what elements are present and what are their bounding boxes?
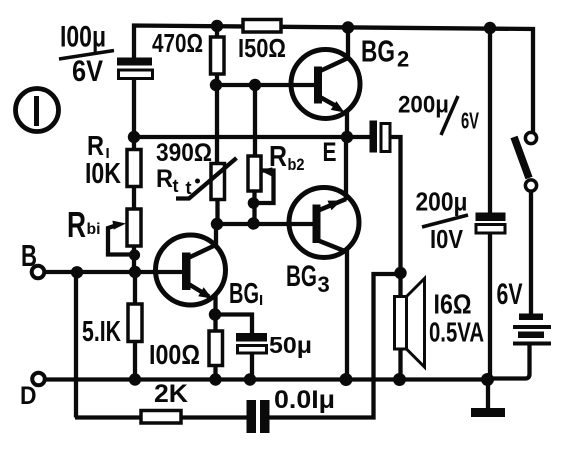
svg-text:I00μ: I00μ: [60, 21, 106, 54]
svg-text:390Ω: 390Ω: [156, 139, 212, 167]
svg-text:BG: BG: [286, 260, 317, 293]
svg-text:R: R: [67, 204, 86, 245]
svg-text:I0V: I0V: [430, 224, 464, 254]
svg-text:50μ: 50μ: [269, 332, 312, 358]
svg-text:b2: b2: [288, 155, 305, 174]
svg-text:470Ω: 470Ω: [152, 28, 203, 58]
svg-text:BG: BG: [361, 34, 395, 69]
svg-text:2K: 2K: [154, 380, 188, 408]
svg-text:6V: 6V: [497, 278, 523, 311]
svg-text:5.IK: 5.IK: [82, 316, 121, 348]
svg-text:R: R: [269, 141, 287, 173]
svg-text:3: 3: [318, 272, 330, 297]
svg-text:I6Ω: I6Ω: [434, 289, 472, 320]
svg-text:I00Ω: I00Ω: [149, 339, 200, 370]
svg-text:t: t: [173, 176, 179, 196]
svg-text:R: R: [87, 130, 104, 161]
svg-text:I: I: [259, 292, 263, 309]
svg-text:I0K: I0K: [85, 158, 121, 190]
svg-text:R: R: [156, 165, 173, 193]
svg-text:2: 2: [397, 47, 409, 72]
svg-text:t: t: [186, 178, 192, 198]
svg-text:200μ: 200μ: [398, 92, 449, 119]
svg-text:6V: 6V: [461, 108, 479, 134]
svg-text:I50Ω: I50Ω: [238, 33, 286, 63]
svg-text:B: B: [21, 238, 37, 273]
svg-text:0.5VA: 0.5VA: [429, 317, 484, 348]
svg-text:6V: 6V: [72, 55, 103, 88]
svg-text:BG: BG: [229, 278, 259, 310]
svg-text:0.0Iμ: 0.0Iμ: [274, 386, 335, 414]
svg-text:bi: bi: [87, 221, 101, 238]
svg-text:200μ: 200μ: [416, 187, 468, 217]
svg-text:D: D: [20, 382, 37, 410]
svg-text:E: E: [323, 137, 337, 167]
